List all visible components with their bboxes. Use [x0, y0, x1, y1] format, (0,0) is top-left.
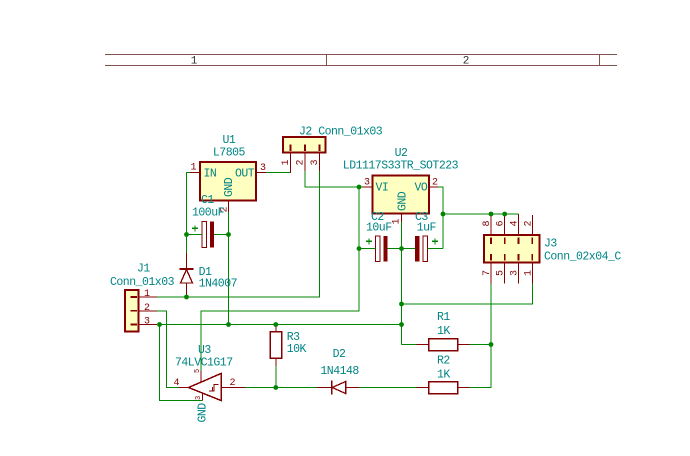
J3 pin 2 stub	[531, 215, 533, 235]
C2 negative plate	[383, 236, 387, 262]
svg-text:10K: 10K	[287, 343, 307, 356]
R3 top stub	[275, 325, 277, 332]
wire J2.3 down to J1.1 row	[318, 171, 321, 297]
svg-text:6: 6	[496, 221, 507, 227]
svg-text:OUT: OUT	[235, 168, 255, 181]
svg-text:1: 1	[523, 270, 534, 276]
wire J3.7 down to R1 right	[490, 284, 492, 345]
J3 pads top row	[490, 238, 492, 245]
svg-text:1N4007: 1N4007	[199, 277, 237, 290]
wire C3 right lead	[428, 248, 444, 250]
D2 cathode bar	[331, 380, 333, 394]
junction GND wire x C2C3 row	[399, 246, 404, 251]
svg-text:100uF: 100uF	[192, 207, 225, 220]
junction J3.8	[489, 212, 494, 217]
J2 body	[283, 137, 326, 153]
C3 positive plate	[423, 236, 428, 262]
svg-text:1K: 1K	[437, 325, 450, 338]
R3 body	[270, 332, 282, 359]
C1 positive plate	[202, 222, 207, 248]
junction at C1 left	[184, 232, 189, 237]
svg-text:L7805: L7805	[213, 146, 246, 159]
D1 anode stub	[186, 283, 188, 297]
C3 negative plate	[415, 236, 419, 262]
U3 pin 4 stub	[179, 387, 189, 389]
svg-text:D2: D2	[333, 348, 346, 361]
svg-text:J1: J1	[137, 263, 150, 276]
wire R2 right up to R1 junction	[470, 345, 491, 388]
wire R1 right to J3.7 vertical	[470, 344, 491, 346]
J2 pad 2	[304, 145, 306, 152]
D2 cathode stub	[317, 387, 332, 389]
junction U2.VI	[357, 185, 362, 190]
svg-text:3: 3	[260, 163, 266, 174]
junction R3 bottom	[273, 385, 278, 390]
U2 pin 1 stub	[401, 214, 403, 223]
svg-text:2: 2	[296, 160, 307, 166]
svg-text:VO: VO	[415, 182, 428, 195]
svg-text:7: 7	[482, 270, 493, 276]
wire GND row J1.3	[160, 324, 402, 326]
wire VO row to J3	[443, 213, 518, 215]
J1 pin 2 stub	[139, 310, 158, 312]
wire VI junction down to C2	[358, 187, 360, 249]
wire U3 output to D2 and R3 junction	[245, 387, 317, 389]
J3 pin 1 stub	[531, 263, 533, 284]
svg-text:1: 1	[281, 160, 292, 166]
U3 buffer triangle	[189, 374, 221, 401]
svg-text:5: 5	[496, 270, 507, 276]
U1 pin 3 stub	[256, 172, 266, 174]
svg-text:3: 3	[509, 270, 520, 276]
junction R3 top on GND row	[273, 322, 278, 327]
svg-text:J3: J3	[544, 238, 557, 251]
R2 body	[429, 382, 458, 394]
wire C2 right to C3 left	[388, 248, 416, 250]
junction J3.6	[502, 212, 507, 217]
svg-text:1: 1	[144, 289, 150, 300]
J1 pad 2	[131, 310, 138, 312]
U2 pin 3 stub	[363, 186, 373, 188]
wire C1 left lead	[187, 234, 203, 236]
wire J3.1 down and left to GND vertical	[402, 284, 533, 305]
svg-text:3: 3	[195, 396, 203, 400]
U2 body	[373, 176, 430, 214]
C1 negative plate	[210, 222, 214, 248]
junction C2 left	[357, 246, 362, 251]
wire U2.GND down	[401, 222, 403, 345]
svg-text:4: 4	[509, 221, 520, 227]
C3 plus sign	[432, 238, 438, 244]
wire C1 right lead	[214, 234, 229, 236]
R1 body	[429, 339, 458, 351]
D1 cathode bar	[180, 268, 194, 270]
R1 left stub	[417, 344, 429, 346]
svg-text:IN: IN	[204, 168, 217, 181]
R3 bottom stub	[275, 358, 277, 366]
op-amp-regulator U1 body	[200, 162, 256, 201]
junction J3.1 row x GND vertical	[399, 302, 404, 307]
wire R3 bottom down to output row	[275, 366, 277, 388]
svg-text:GND: GND	[197, 403, 210, 423]
J3 pads bottom row	[490, 254, 492, 260]
sheet border top lines	[105, 55, 617, 66]
C2 positive plate	[375, 236, 380, 262]
svg-text:74LVC1G17: 74LVC1G17	[175, 357, 233, 370]
D1 triangle	[181, 270, 193, 284]
J3 pin 6 stub	[504, 214, 506, 235]
svg-text:1uF: 1uF	[417, 222, 437, 235]
svg-text:1: 1	[392, 219, 403, 225]
svg-text:2: 2	[463, 56, 470, 68]
J3 body	[484, 235, 540, 263]
U1 pin 1 stub	[190, 172, 200, 174]
U3 schmitt mark	[209, 384, 219, 391]
J1 pad 3	[131, 324, 138, 326]
U3 pin 3 stub	[202, 394, 204, 401]
wire U1.IN left and down	[187, 173, 191, 235]
J3 pin 3 stub	[517, 263, 519, 284]
J3 pin 5 stub	[504, 263, 506, 284]
svg-text:3: 3	[144, 317, 150, 328]
svg-text:C1: C1	[201, 194, 214, 207]
svg-text:Conn_01x03: Conn_01x03	[110, 276, 175, 289]
wire from C1 junction down to D1	[186, 235, 188, 254]
junction GND row x C1 down wire	[226, 322, 231, 327]
svg-text:GND: GND	[223, 177, 236, 197]
D2 triangle	[332, 381, 346, 393]
junction R1 right	[489, 342, 494, 347]
wire D2 to R2 left	[359, 387, 417, 389]
U3 pin 2 stub	[221, 387, 245, 389]
junction D1 anode / J1.1	[184, 295, 189, 300]
svg-text:Conn_02x04_C: Conn_02x04_C	[544, 250, 621, 263]
svg-text:Conn_01x03: Conn_01x03	[318, 126, 383, 139]
svg-text:1K: 1K	[437, 368, 450, 381]
svg-text:1N4148: 1N4148	[320, 365, 359, 378]
J1 pad 1	[131, 296, 138, 298]
junction GND row end	[399, 322, 404, 327]
U2 pin 2 stub	[429, 186, 438, 188]
svg-text:R1: R1	[437, 311, 450, 324]
wire J1.2 to U3 input	[157, 311, 179, 388]
J2 pin 1 stub	[290, 153, 292, 173]
R1 right stub	[458, 344, 470, 346]
svg-text:2: 2	[523, 221, 534, 227]
wire J2.2 down and right to U2.VI	[305, 171, 363, 187]
svg-text:2: 2	[230, 378, 236, 389]
J2 pin 2 stub	[304, 153, 306, 171]
svg-text:1: 1	[191, 56, 198, 68]
wire GND vertical corner to R1 left	[402, 344, 417, 346]
svg-text:5: 5	[194, 369, 202, 373]
J1 pin 1 stub	[139, 296, 158, 298]
svg-text:U2: U2	[395, 147, 408, 160]
svg-text:U3: U3	[198, 344, 211, 357]
wire J1.3 down to U3 GND	[160, 325, 203, 401]
wire U2.VO right and down	[438, 187, 443, 249]
J1 body	[125, 290, 139, 332]
R2 left stub	[417, 387, 429, 389]
junction at C1 right	[226, 232, 231, 237]
svg-text:GND: GND	[397, 191, 410, 211]
svg-text:U1: U1	[223, 134, 236, 147]
svg-text:R2: R2	[437, 355, 450, 368]
wire U1.OUT to J2.1	[266, 172, 291, 174]
C2 plus sign	[366, 238, 372, 244]
svg-text:4: 4	[174, 378, 180, 389]
wire U3 VCC run: from C2 junction down, left, down to U3 pin5	[201, 249, 359, 371]
U1 pin 2 stub	[228, 201, 230, 213]
wire U1.GND down	[228, 212, 230, 325]
svg-text:VI: VI	[376, 182, 389, 195]
junction J1.3	[157, 322, 162, 327]
U3 pin 5 stub	[200, 371, 202, 382]
D2 anode stub	[346, 387, 359, 389]
D1 cathode stub	[186, 253, 188, 269]
wire J1.1 row to J2.3 drop	[157, 296, 319, 298]
svg-text:2: 2	[144, 303, 150, 314]
svg-text:3: 3	[364, 178, 370, 189]
J3 pin 7 stub	[490, 263, 492, 284]
J2 pin 3 stub	[319, 153, 321, 171]
wire C2 left lead	[359, 248, 375, 250]
svg-text:LD1117S33TR_SOT223: LD1117S33TR_SOT223	[343, 159, 459, 172]
junction VO corner	[441, 212, 446, 217]
svg-text:1: 1	[191, 163, 197, 174]
svg-text:10uF: 10uF	[366, 222, 392, 235]
J3 pin 4 stub	[517, 214, 519, 235]
J1 pin 3 stub	[139, 324, 158, 326]
svg-text:2: 2	[432, 178, 438, 189]
svg-text:8: 8	[482, 221, 493, 227]
J2 pad 1	[290, 145, 292, 152]
svg-text:3: 3	[310, 160, 321, 166]
C1 plus sign	[192, 225, 198, 231]
J3 pin 8 stub	[490, 214, 492, 235]
J2 pad 3	[319, 145, 321, 152]
R2 right stub	[458, 387, 470, 389]
